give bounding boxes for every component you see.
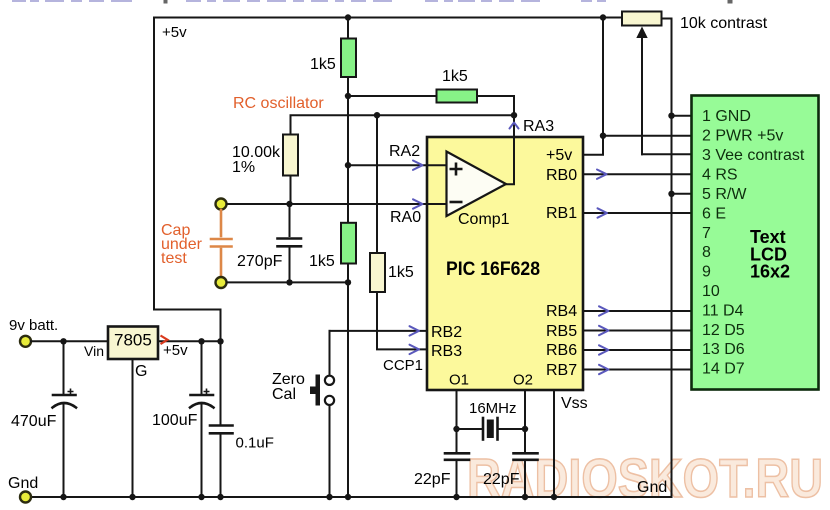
wire button bottom to gnd — [329, 405, 331, 497]
wire 10k bottom to RA0 node — [290, 176, 292, 205]
svg-text:RB1: RB1 — [546, 205, 577, 222]
O1 pin wire — [456, 390, 458, 452]
svg-text:270pF: 270pF — [237, 253, 283, 270]
svg-text:RB4: RB4 — [546, 303, 577, 320]
capacitor 0.1uF — [220, 341, 222, 424]
svg-text:Vin: Vin — [84, 343, 104, 359]
svg-text:Vss: Vss — [561, 395, 588, 412]
node divider mid — [345, 93, 351, 99]
node 270pF top — [286, 201, 292, 207]
resistor 1k5 (pale) to CCP1 — [370, 253, 385, 292]
pot wiper arrow — [641, 37, 643, 154]
svg-text:1%: 1% — [232, 159, 255, 176]
wire RB6 to LCD 13 — [583, 349, 692, 351]
wire 1k5 to RA3 node — [477, 96, 514, 115]
arrow RA0 (blue) — [413, 199, 423, 208]
wire RA3 node to 10k top — [291, 115, 515, 134]
svg-text:1 GND: 1 GND — [702, 108, 751, 125]
svg-text:RB0: RB0 — [546, 167, 577, 184]
Vss pin wire — [553, 390, 555, 497]
resistor 1k5 mid (green) — [341, 223, 356, 264]
svg-text:Cal: Cal — [272, 386, 296, 403]
wire RB4 to LCD 11 — [583, 310, 692, 312]
ground rail — [31, 496, 672, 498]
svg-text:RB6: RB6 — [546, 342, 577, 359]
svg-text:11 D4: 11 D4 — [702, 302, 744, 319]
+5v rail top wire — [154, 17, 622, 19]
svg-text:1k5: 1k5 — [309, 253, 335, 270]
capacitor 22pF left — [445, 452, 469, 455]
capacitor 470uF — [63, 341, 65, 394]
node cap gnd — [345, 279, 351, 285]
wire RA3 vertical into PIC — [506, 115, 514, 184]
svg-text:1k5: 1k5 — [388, 264, 414, 281]
wire 1k5 to RB3 — [377, 292, 427, 349]
wire down to ground rail — [347, 282, 349, 497]
wire button top — [329, 331, 331, 375]
terminal cap under test bottom — [216, 277, 227, 288]
svg-text:RC oscillator: RC oscillator — [233, 95, 324, 112]
svg-text:Comp1: Comp1 — [458, 211, 510, 228]
+5v box left border wire — [154, 18, 221, 342]
svg-text:7: 7 — [702, 225, 711, 242]
wire RB7 to LCD 14 — [583, 369, 692, 371]
wire RA0 — [227, 203, 447, 205]
wire node to horizontal 1k5 — [348, 95, 437, 97]
wire RA3 stub inside PIC to comparator output — [506, 136, 514, 184]
wire RA2 stub inside PIC — [427, 164, 447, 166]
resistor 10.00k 1% — [283, 135, 298, 176]
wire RA0 stub inside PIC — [427, 203, 447, 205]
capacitor 100uF — [201, 341, 203, 394]
svg-text:RADIOSKOT.RU: RADIOSKOT.RU — [467, 447, 823, 509]
resistor 1k5 horizontal (green) — [437, 90, 478, 103]
svg-text:PIC 16F628: PIC 16F628 — [446, 259, 540, 280]
svg-text:RB3: RB3 — [431, 343, 462, 360]
pot right wire down (gnd) — [662, 19, 672, 498]
svg-text:+5v: +5v — [162, 24, 187, 41]
svg-text:4 RS: 4 RS — [702, 167, 738, 184]
op-amp comparator Comp1 — [447, 152, 507, 217]
wire RB0 to LCD pin4 RS — [583, 173, 692, 175]
O2 pin wire — [524, 390, 526, 452]
svg-text:1k5: 1k5 — [442, 68, 468, 85]
svg-text:O1: O1 — [449, 372, 469, 389]
svg-text:13 D6: 13 D6 — [702, 341, 745, 358]
node gnd to LCD pin5 — [668, 191, 674, 197]
svg-text:10: 10 — [702, 283, 720, 300]
svg-text:RB2: RB2 — [431, 324, 462, 341]
wire wiper to LCD pin3 — [642, 153, 692, 155]
node gnd to LCD pin1 — [668, 113, 674, 119]
svg-text:9: 9 — [702, 264, 711, 281]
svg-text:16x2: 16x2 — [750, 262, 790, 282]
potentiometer 10k contrast — [622, 12, 662, 26]
svg-text:+5v: +5v — [163, 342, 188, 359]
wire rail to R1 — [347, 18, 349, 39]
wire RB2 from button — [330, 330, 428, 332]
svg-text:16MHz: 16MHz — [469, 400, 517, 417]
LCD module box — [692, 96, 819, 390]
svg-text:470uF: 470uF — [11, 413, 57, 430]
wire node to RA2 node — [347, 96, 349, 223]
crystal 16MHz — [457, 428, 483, 430]
capacitor 22pF right — [514, 452, 538, 455]
wire to LCD pin 2 — [603, 135, 692, 137]
svg-text:O2: O2 — [513, 372, 533, 389]
svg-text:1k5: 1k5 — [310, 56, 336, 73]
7805 G pin wire — [132, 359, 134, 497]
node +5v to LCD pin2 — [600, 133, 606, 139]
svg-text:8: 8 — [702, 244, 711, 261]
wire CCP branch down — [376, 115, 378, 253]
wire RB1 to LCD pin6 E — [583, 212, 692, 214]
red arrow +5v — [161, 336, 168, 345]
svg-text:7805: 7805 — [114, 331, 152, 350]
cropped text remnants at top edge — [12, 0, 606, 2]
svg-text:9v batt.: 9v batt. — [9, 317, 58, 334]
svg-text:6 E: 6 E — [702, 205, 726, 222]
svg-text:0.1uF: 0.1uF — [236, 435, 274, 452]
svg-text:5 R/W: 5 R/W — [702, 186, 747, 203]
svg-text:10k contrast: 10k contrast — [680, 15, 768, 32]
pushbutton Zero Cal — [310, 375, 334, 406]
arrow RB3 (blue) — [410, 345, 420, 354]
svg-text:100uF: 100uF — [152, 412, 198, 429]
regulator 7805 — [108, 327, 158, 360]
node RA3 — [511, 112, 517, 118]
arrow RB2 (blue) — [410, 326, 420, 335]
svg-text:G: G — [135, 363, 147, 380]
svg-text:2 PWR +5v: 2 PWR +5v — [702, 128, 783, 145]
node on ground rail — [345, 494, 351, 500]
wire 1k5 mid to gnd wire — [347, 264, 349, 283]
svg-text:22pF: 22pF — [414, 471, 451, 488]
wire RA2 to PIC — [348, 164, 447, 166]
7805 output wire — [158, 340, 221, 342]
terminal cap under test top — [216, 199, 227, 210]
svg-text:RB5: RB5 — [546, 323, 577, 340]
svg-text:12 D5: 12 D5 — [702, 322, 745, 339]
svg-text:RA0: RA0 — [390, 209, 421, 226]
node top of R divider — [345, 14, 351, 20]
svg-text:Gnd: Gnd — [637, 479, 667, 496]
wire PIC +5v pin up to rail — [583, 18, 603, 155]
arrow RA3 up (blue) — [510, 123, 519, 129]
svg-text:3 Vee contrast: 3 Vee contrast — [702, 147, 805, 164]
cap under test symbol (orange) — [211, 210, 232, 276]
svg-text:RB7: RB7 — [546, 362, 577, 379]
wire cap bottom to gnd node — [227, 281, 348, 283]
PIC 16F628 box — [427, 137, 583, 390]
svg-text:+5v: +5v — [546, 147, 572, 164]
capacitor 270pF — [289, 204, 291, 236]
arrow RA2 (blue) — [413, 161, 423, 170]
svg-text:CCP1: CCP1 — [383, 357, 423, 374]
wire RB5 to LCD 12 — [583, 330, 692, 332]
resistor R 1k5 top (green) — [341, 39, 356, 78]
svg-text:22pF: 22pF — [483, 471, 520, 488]
terminal Gnd — [20, 492, 31, 503]
terminal 9v — [20, 336, 31, 347]
svg-text:14 D7: 14 D7 — [702, 361, 745, 378]
svg-text:RA2: RA2 — [389, 143, 420, 160]
node RA2 — [345, 162, 351, 168]
svg-text:Gnd: Gnd — [8, 475, 38, 492]
node 1k5 CCP branch — [374, 112, 380, 118]
wire R1 to node — [347, 77, 349, 96]
wire 9v to 7805 — [31, 340, 108, 342]
svg-text:test: test — [161, 250, 187, 267]
svg-text:RA3: RA3 — [523, 118, 554, 135]
